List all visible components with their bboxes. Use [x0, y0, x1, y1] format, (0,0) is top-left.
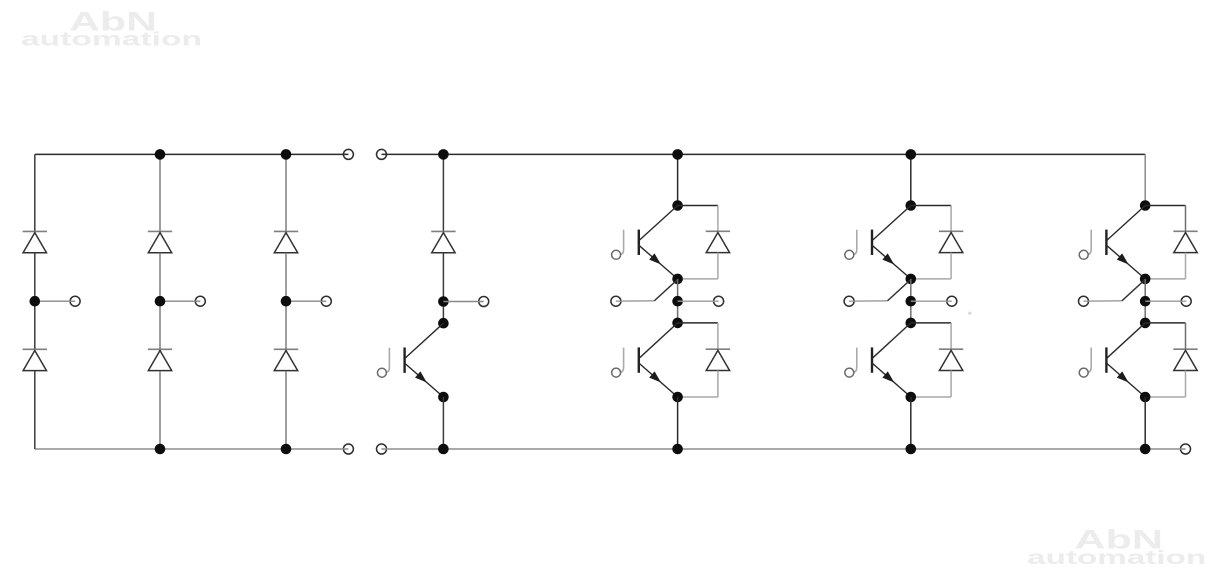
- terminal aux emitter U: [611, 296, 621, 306]
- IGBT Q2 emitter lead: [639, 363, 678, 397]
- IGBT Q1 emitter lead: [639, 245, 678, 279]
- IGBT Q1 gate terminal: [612, 250, 621, 259]
- junction leg V bottom: [906, 444, 917, 455]
- watermark AbN automation (top-left): [21, 6, 202, 50]
- IGBT Q4 gate terminal: [845, 368, 854, 377]
- IGBT Q6 emitter lead: [1106, 363, 1145, 397]
- wire bus P drop to leg W: [1144, 154, 1146, 205]
- wire leg V to bus N: [910, 397, 912, 449]
- junction phase node V: [906, 296, 917, 307]
- IGBT Q4 emitter arrow: [882, 371, 894, 382]
- junction Q7 collector: [438, 318, 449, 329]
- terminal brake resistor: [479, 297, 489, 307]
- wire diode D3 branch cathode drop: [950, 206, 952, 232]
- junction Q7 emitter: [438, 392, 449, 403]
- junction Q5 collector node: [1140, 200, 1151, 211]
- terminal phase output W: [1181, 296, 1191, 306]
- wire rectifier leg 3 upper: [285, 154, 287, 231]
- IGBT Q5 body bar: [1105, 230, 1107, 255]
- junction rectifier phase node 1: [30, 296, 41, 307]
- junction chopper leg bottom: [438, 444, 449, 455]
- junction Q2 collector node: [672, 318, 683, 329]
- wire bottom rail (rectifier bus N): [35, 448, 349, 450]
- IGBT Q4 collector lead: [873, 323, 911, 358]
- wire diode D5 branch return: [1145, 278, 1185, 280]
- wire diode D3 branch top: [911, 205, 951, 207]
- junction Q4 emitter node: [906, 392, 917, 403]
- terminal rectifier - output: [343, 444, 353, 454]
- junction rectifier leg 3 top: [281, 149, 292, 160]
- junction leg V top: [906, 149, 917, 160]
- terminal phase output U: [714, 296, 724, 306]
- wire phase output stub W: [1145, 300, 1186, 302]
- junction Q1 emitter node: [672, 274, 683, 285]
- diode D11 (rectifier upper): [23, 230, 47, 232]
- IGBT Q2 body bar: [638, 347, 640, 372]
- junction Q3 collector node: [906, 200, 917, 211]
- IGBT Q4 gate lead: [853, 348, 857, 373]
- junction Q3 emitter node: [906, 274, 917, 285]
- junction leg W bottom: [1140, 444, 1151, 455]
- junction Q6 collector node: [1140, 318, 1151, 329]
- junction phase node W: [1140, 296, 1151, 307]
- IGBT Q3 body bar: [871, 230, 873, 255]
- junction rectifier phase node 3: [281, 296, 292, 307]
- IGBT Q5 gate lead: [1087, 230, 1091, 255]
- wire diode D1 branch anode drop: [717, 253, 719, 279]
- IGBT Q2 gate terminal: [612, 368, 621, 377]
- IGBT Q1 collector lead: [640, 206, 678, 241]
- speck artifact: [968, 312, 971, 315]
- wire diode D1 branch return: [678, 278, 718, 280]
- IGBT Q7 body bar: [403, 348, 405, 373]
- junction leg U top: [672, 149, 683, 160]
- IGBT Q6 gate lead: [1087, 348, 1091, 373]
- wire diode D4 branch top: [911, 322, 951, 324]
- wire diode D6 branch anode drop: [1185, 371, 1187, 398]
- wire diode D3 branch anode drop: [950, 253, 952, 279]
- wire rectifier leg 2 upper: [159, 154, 161, 231]
- wire chopper leg middle: [442, 253, 444, 324]
- diode D3: [939, 230, 963, 232]
- diode D1: [706, 230, 730, 232]
- wire diode D2 branch top: [678, 322, 718, 324]
- diode D21 (rectifier upper): [148, 230, 172, 232]
- IGBT Q3 emitter arrow: [882, 253, 894, 264]
- wire aux emitter stub W: [1084, 300, 1122, 302]
- IGBT Q7 gate terminal: [377, 368, 386, 377]
- IGBT Q1 body bar: [638, 230, 640, 255]
- terminal AC input phase 3: [321, 296, 331, 306]
- wire inverter leg V from bus P: [910, 154, 912, 205]
- wire aux emitter stub V: [849, 300, 887, 302]
- wire chopper leg lower: [442, 397, 444, 449]
- wire diode D2 branch return: [678, 396, 718, 398]
- terminal AC input phase 1: [70, 296, 80, 306]
- wire bottom rail (inverter bus N): [382, 448, 1186, 450]
- IGBT Q5 collector lead: [1107, 206, 1145, 241]
- wire top rail (inverter bus P): [382, 153, 1146, 155]
- wire AC input stub phase 1: [35, 300, 75, 302]
- terminal inverter bus N: [377, 444, 387, 454]
- wire diode D1 branch top: [678, 205, 718, 207]
- wire aux emitter diagonal U: [654, 280, 677, 301]
- junction phase node U: [672, 296, 683, 307]
- wire phase output stub V: [911, 300, 952, 302]
- junction Q6 emitter node: [1140, 392, 1151, 403]
- wire diode D5 branch anode drop: [1185, 253, 1187, 279]
- diode D2: [706, 348, 730, 350]
- terminal aux emitter W: [1079, 296, 1089, 306]
- diode D32 (rectifier lower): [274, 348, 298, 350]
- IGBT Q3 gate terminal: [845, 250, 854, 259]
- terminal rectifier + output: [343, 149, 353, 159]
- terminal aux emitter V: [844, 296, 854, 306]
- junction Q4 collector node: [906, 318, 917, 329]
- wire emitter to phase node V: [910, 279, 912, 323]
- junction Q1 collector node: [672, 200, 683, 211]
- IGBT Q1 gate lead: [619, 230, 623, 255]
- wire diode D6 branch top: [1145, 322, 1185, 324]
- wire AC input stub phase 3: [286, 300, 326, 302]
- wire diode D3 branch return: [911, 278, 951, 280]
- terminal inverter bus P: [377, 149, 387, 159]
- wire emitter to phase node U: [677, 279, 679, 323]
- junction Q5 emitter node: [1140, 274, 1151, 285]
- wire diode D6 branch cathode drop: [1185, 323, 1187, 349]
- junction rectifier leg 2 top: [155, 149, 166, 160]
- wire rectifier leg 3 lower: [285, 371, 287, 449]
- wire diode D2 branch cathode drop: [717, 323, 719, 349]
- IGBT Q4 body bar: [871, 347, 873, 372]
- wire diode D2 branch anode drop: [717, 371, 719, 398]
- IGBT Q3 emitter lead: [872, 245, 911, 279]
- wire rectifier leg 2 lower: [159, 371, 161, 449]
- junction Q2 emitter node: [672, 392, 683, 403]
- wire diode D5 branch top: [1145, 205, 1185, 207]
- wire leg U to bus N: [677, 397, 679, 449]
- IGBT Q3 gate lead: [853, 230, 857, 255]
- wire AC input stub phase 2: [160, 300, 200, 302]
- IGBT Q7 emitter lead: [405, 363, 444, 397]
- wire diode D1 branch cathode drop: [717, 206, 719, 232]
- diode D22 (rectifier lower): [148, 348, 172, 350]
- watermark AbN automation (bottom-right): [1027, 524, 1206, 569]
- wire chopper terminal stub: [443, 301, 483, 303]
- IGBT Q1 emitter arrow: [649, 253, 661, 264]
- wire diode D5 branch cathode drop: [1185, 206, 1187, 232]
- wire phase output stub U: [678, 300, 719, 302]
- wire aux emitter stub U: [616, 300, 654, 302]
- diode D5: [1173, 230, 1197, 232]
- wire diode D4 branch return: [911, 396, 951, 398]
- IGBT Q6 emitter arrow: [1117, 371, 1129, 382]
- IGBT Q5 gate terminal: [1079, 250, 1088, 259]
- wire rectifier leg 1 upper: [34, 154, 36, 231]
- wire diode D4 branch cathode drop: [950, 323, 952, 349]
- svg-text:automation: automation: [21, 29, 202, 50]
- junction chopper mid node: [438, 296, 449, 307]
- junction rectifier phase node 2: [155, 296, 166, 307]
- junction rectifier leg 3 bottom: [281, 444, 292, 455]
- IGBT Q3 collector lead: [873, 206, 911, 241]
- diode D12 (rectifier lower): [23, 348, 47, 350]
- IGBT Q6 collector lead: [1107, 323, 1145, 358]
- wire rectifier leg 1 middle: [34, 253, 36, 350]
- wire leg W to bus N: [1144, 397, 1146, 449]
- diode D4: [939, 348, 963, 350]
- junction rectifier leg 2 bottom: [155, 444, 166, 455]
- wire rectifier leg 1 lower: [34, 371, 36, 449]
- wire diode D4 branch anode drop: [950, 371, 952, 398]
- wire emitter to phase node W: [1144, 279, 1146, 323]
- IGBT Q7 collector lead: [405, 323, 443, 358]
- diode D7 (brake): [431, 230, 455, 232]
- IGBT Q2 emitter arrow: [649, 371, 661, 382]
- IGBT Q2 collector lead: [640, 323, 678, 358]
- IGBT Q7 gate lead: [385, 348, 389, 373]
- wire rectifier leg 3 middle: [285, 253, 287, 350]
- wire diode D6 branch return: [1145, 396, 1185, 398]
- wire rectifier leg 2 middle: [159, 253, 161, 350]
- terminal AC input phase 2: [195, 296, 205, 306]
- IGBT Q5 emitter lead: [1106, 245, 1145, 279]
- wire aux emitter diagonal W: [1122, 280, 1145, 301]
- terminal bus N right end: [1181, 444, 1191, 454]
- wire aux emitter diagonal V: [888, 280, 911, 301]
- IGBT Q6 body bar: [1105, 347, 1107, 372]
- wire top rail (rectifier bus P): [35, 153, 349, 155]
- IGBT Q6 gate terminal: [1079, 368, 1088, 377]
- IGBT Q7 emitter arrow: [415, 371, 427, 382]
- diode D6: [1173, 348, 1197, 350]
- diode D31 (rectifier upper): [274, 230, 298, 232]
- IGBT Q5 emitter arrow: [1117, 253, 1129, 264]
- wire chopper leg upper: [442, 154, 444, 231]
- junction chopper leg top: [438, 149, 449, 160]
- junction leg U bottom: [672, 444, 683, 455]
- wire inverter leg U from bus P: [677, 154, 679, 205]
- svg-text:automation: automation: [1027, 548, 1206, 569]
- IGBT Q2 gate lead: [619, 348, 623, 373]
- terminal phase output V: [947, 296, 957, 306]
- IGBT Q4 emitter lead: [872, 363, 911, 397]
